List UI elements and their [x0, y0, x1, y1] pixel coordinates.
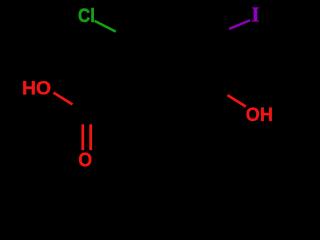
svg-text:O: O [78, 150, 92, 172]
svg-text:Cl: Cl [78, 5, 95, 26]
svg-text:I: I [251, 3, 259, 27]
svg-text:OH: OH [246, 103, 273, 125]
svg-text:HO: HO [22, 77, 51, 99]
